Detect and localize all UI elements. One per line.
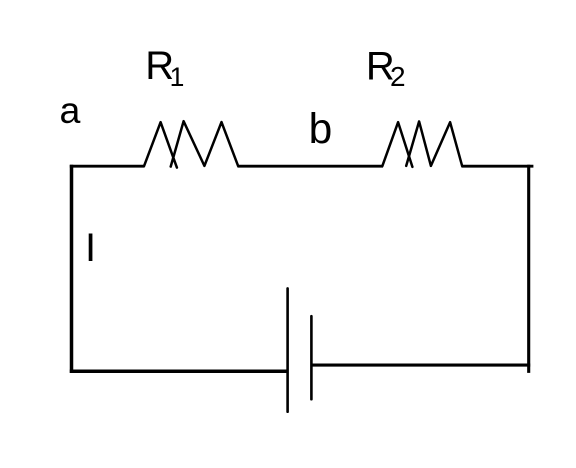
node b label <box>309 106 333 153</box>
svg-text:b: b <box>309 106 333 153</box>
battery short plate <box>310 316 313 399</box>
resistor R1 <box>144 121 238 167</box>
svg-text:I: I <box>85 226 96 270</box>
svg-text:2: 2 <box>390 61 406 92</box>
wire left vertical <box>70 165 74 373</box>
label R2 <box>366 44 406 91</box>
wire top-right (R2 to right corner) <box>462 165 534 168</box>
label R1 <box>145 44 184 92</box>
node a label <box>60 89 81 131</box>
current label I <box>85 226 96 270</box>
svg-text:a: a <box>60 89 81 131</box>
wire top-middle (R1 to R2, node b) <box>238 165 384 168</box>
wire top-left (node a to R1) <box>70 165 145 168</box>
resistor R2 <box>382 121 462 166</box>
wire right vertical <box>527 165 530 373</box>
wire bottom-left (to battery) <box>70 369 287 373</box>
wire bottom-right (battery to right corner) <box>312 364 531 367</box>
svg-text:1: 1 <box>170 62 185 92</box>
battery long plate <box>286 288 289 411</box>
